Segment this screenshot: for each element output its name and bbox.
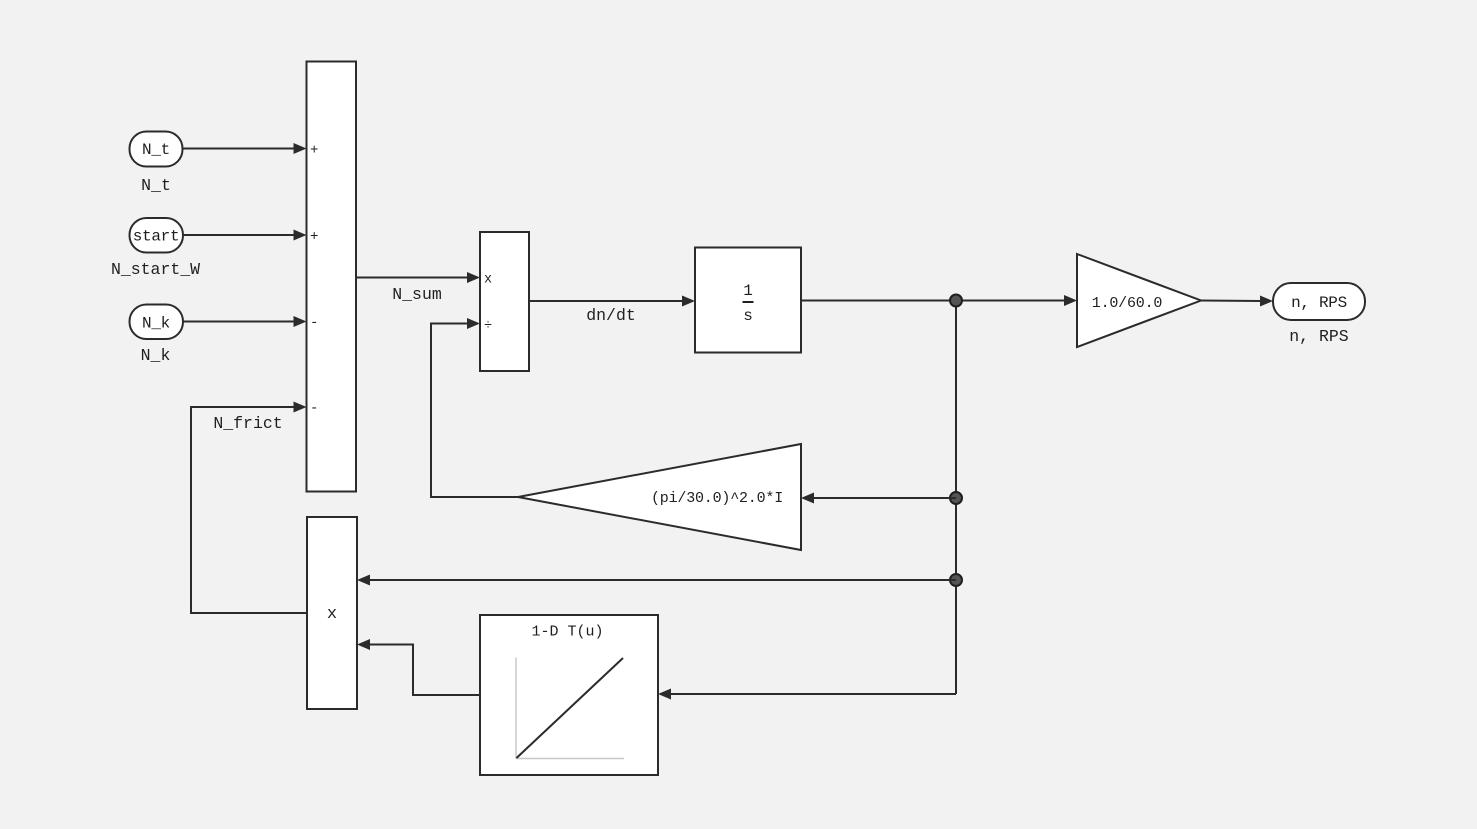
integrator block 1/s <box>695 248 801 353</box>
wire gain1 to outport <box>1201 296 1273 307</box>
svg-text:n, RPS: n, RPS <box>1291 294 1347 312</box>
wire sum output to divide x input <box>356 272 480 283</box>
svg-text:1-D T(u): 1-D T(u) <box>531 624 603 641</box>
wire start to sum <box>183 230 307 241</box>
wire integrator output to gain1 (through junction) <box>801 295 1077 306</box>
wire feedback to lookup input <box>658 689 956 700</box>
divide block <box>480 232 529 371</box>
svg-text:(pi/30.0)^2.0*I: (pi/30.0)^2.0*I <box>651 490 783 507</box>
inport N_k <box>130 305 184 340</box>
wire N_frict: product output to sum 4th input <box>191 402 307 614</box>
svg-text:-: - <box>310 315 318 331</box>
svg-text:start: start <box>133 228 180 246</box>
wire junction to gain2 input <box>801 493 956 504</box>
svg-text:dn/dt: dn/dt <box>586 306 636 325</box>
wire lookup output to product 2nd input <box>357 639 480 695</box>
svg-text:+: + <box>310 229 318 245</box>
wire N_k to sum <box>183 316 307 327</box>
outport n, RPS <box>1273 283 1365 320</box>
svg-text:N_t: N_t <box>141 176 171 195</box>
svg-text:x: x <box>327 605 337 624</box>
sum block <box>307 62 357 492</box>
inport start <box>130 218 184 253</box>
svg-text:x: x <box>484 273 492 288</box>
lookup curve <box>517 658 624 758</box>
gain2 triangle (pi/30.0)^2.0*I <box>518 444 801 550</box>
wire junction to product 1st input <box>357 575 956 586</box>
vertical feedback wire <box>955 301 957 695</box>
wire gain2 output to divide divisor input <box>431 318 518 497</box>
junction dot middle <box>950 492 962 504</box>
lookup x-axis <box>516 758 624 760</box>
product block x <box>307 517 357 709</box>
svg-text:1: 1 <box>743 282 753 300</box>
wire N_t to sum <box>183 143 307 154</box>
junction dot top <box>950 295 962 307</box>
svg-text:n, RPS: n, RPS <box>1289 327 1349 346</box>
svg-text:+: + <box>310 143 318 159</box>
lookup y-axis <box>515 658 517 760</box>
inport N_t <box>130 132 183 167</box>
junction dot bottom <box>950 574 962 586</box>
lookup table block <box>480 615 658 775</box>
svg-text:N_frict: N_frict <box>213 414 282 433</box>
svg-text:N_k: N_k <box>141 346 171 365</box>
svg-text:-: - <box>310 401 318 417</box>
svg-text:N_start_W: N_start_W <box>111 260 200 279</box>
svg-text:N_k: N_k <box>142 315 170 333</box>
wire divide output to integrator <box>529 296 695 307</box>
svg-text:1.0/60.0: 1.0/60.0 <box>1092 295 1163 312</box>
svg-text:s: s <box>743 307 753 325</box>
svg-text:N_sum: N_sum <box>392 285 442 304</box>
svg-text:÷: ÷ <box>484 319 492 334</box>
gain1 triangle 1.0/60.0 <box>1077 254 1201 347</box>
svg-text:N_t: N_t <box>142 141 170 159</box>
